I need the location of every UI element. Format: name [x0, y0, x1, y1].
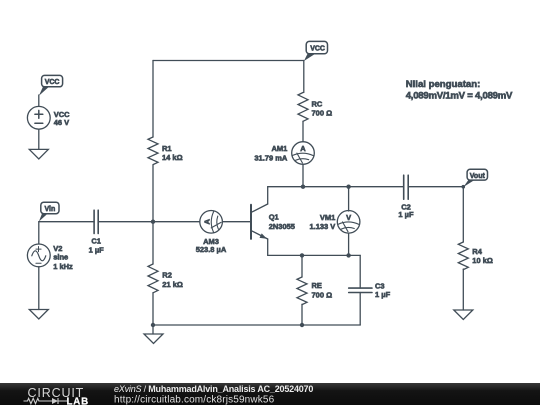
svg-text:Q1: Q1 — [269, 213, 279, 222]
junction dot ground rail left — [151, 323, 155, 327]
svg-text:LAB: LAB — [67, 396, 89, 405]
junction dot AM1/collector rail — [301, 185, 305, 189]
label RC 700 Ohm — [312, 99, 333, 117]
svg-text:1 µF: 1 µF — [375, 290, 391, 299]
CircuitLab logo — [22, 384, 102, 405]
svg-text:1 µF: 1 µF — [398, 210, 414, 219]
footer title text — [114, 384, 514, 405]
svg-text:1 µF: 1 µF — [89, 245, 105, 254]
label R1 14 kOhm — [162, 144, 183, 162]
voltage source VCC — [27, 106, 50, 129]
svg-text:R1: R1 — [162, 144, 172, 153]
junction dot VM1/collector rail — [346, 185, 350, 189]
label AM3 523.8 uA — [196, 237, 227, 254]
svg-text:VCC: VCC — [45, 79, 60, 86]
node label box VCC left — [39, 75, 63, 95]
resistor R1 — [148, 137, 158, 165]
wire R2 bottom to ground rail — [152, 293, 154, 325]
ground under R4 — [454, 310, 473, 320]
junction dot VM1 bottom — [346, 253, 350, 257]
voltmeter VM1 — [337, 211, 360, 234]
wire C3 top lead — [359, 255, 361, 288]
wire Vout corner to R4 — [462, 187, 464, 242]
footer url text — [114, 394, 514, 404]
svg-text:VM1: VM1 — [320, 213, 335, 222]
resistor R4 — [458, 242, 468, 270]
svg-text:VCC: VCC — [310, 46, 325, 53]
wire AM3 to Q1 base — [222, 221, 251, 223]
resistor R2 — [148, 264, 158, 293]
node label box VCC top — [304, 41, 328, 61]
ammeter AM3 rotated — [200, 211, 223, 234]
transistor Q1 — [251, 187, 268, 256]
wire RE top lead — [301, 255, 303, 277]
wire R2 top lead — [152, 222, 154, 264]
svg-text:700 Ω: 700 Ω — [312, 290, 333, 299]
wire C3 bottom to ground rail — [359, 293, 361, 326]
ground under VCC source — [29, 149, 48, 159]
capacitor C3 — [349, 288, 372, 292]
svg-text:sine: sine — [53, 253, 68, 262]
svg-text:Vin: Vin — [45, 206, 56, 213]
junction dot RE bottom — [300, 323, 304, 327]
label Q1 2N3055 — [269, 213, 295, 231]
junction dot base node — [151, 220, 155, 224]
svg-text:2N3055: 2N3055 — [269, 222, 295, 231]
junction dot at Vout corner — [462, 185, 466, 189]
voltage source V2 sine — [27, 244, 50, 267]
label R4 10 kOhm — [472, 247, 493, 265]
wire VM1 bottom to emitter rail — [348, 233, 350, 255]
svg-text:31.79 mA: 31.79 mA — [254, 153, 288, 162]
capacitor C1 — [94, 210, 98, 233]
svg-text:10 kΩ: 10 kΩ — [472, 256, 493, 265]
node label box Vout — [463, 169, 487, 187]
label AM1 31.79 mA — [254, 144, 288, 162]
svg-text:C1: C1 — [91, 237, 101, 246]
footer bar — [0, 383, 540, 406]
label VM1 1.133 V — [309, 213, 335, 231]
wire emitter rail — [268, 254, 361, 256]
svg-text:21 kΩ: 21 kΩ — [162, 280, 183, 289]
svg-text:V: V — [346, 213, 351, 222]
label RE 700 Ohm — [312, 281, 333, 299]
wire C1 to AM3 — [98, 221, 200, 223]
label C1 1 uF — [89, 237, 105, 255]
label VCC 46 V — [54, 110, 70, 127]
svg-text:AM1: AM1 — [271, 144, 287, 153]
wire VCC source to ground — [38, 129, 40, 149]
wire ground stem at R2 — [152, 325, 154, 334]
svg-text:14 kΩ: 14 kΩ — [162, 153, 183, 162]
wire Vin corner to C1 — [39, 221, 94, 223]
svg-text:C3: C3 — [375, 282, 385, 291]
wire collector rail left of C2 — [268, 186, 404, 188]
label V2 sine 1 kHz — [53, 244, 73, 271]
ground under V2 — [29, 310, 48, 320]
svg-text:46 V: 46 V — [54, 118, 69, 127]
svg-text:4,089mV/1mV = 4,089mV: 4,089mV/1mV = 4,089mV — [406, 91, 513, 102]
capacitor C2 — [404, 175, 409, 199]
wire VCC column to RC — [303, 61, 305, 93]
svg-text:R4: R4 — [472, 247, 482, 256]
wire AM1 bottom to collector rail — [302, 164, 304, 186]
label R2 21 kOhm — [162, 271, 183, 289]
junction dot RE top — [300, 253, 304, 257]
svg-text:AM3: AM3 — [203, 237, 219, 246]
label C3 1 uF — [375, 282, 391, 299]
label C2 1 uF — [398, 202, 414, 219]
svg-text:A: A — [202, 219, 211, 225]
wire R4 bottom to ground — [462, 269, 464, 310]
svg-text:1.133 V: 1.133 V — [309, 222, 335, 231]
node label box Vin — [39, 202, 59, 221]
note text Nilai penguatan — [406, 79, 513, 102]
wire collector rail right of C2 — [408, 186, 463, 188]
wire RE bottom to ground rail — [301, 304, 303, 325]
wire top rail — [153, 60, 304, 62]
svg-text:700 Ω: 700 Ω — [312, 109, 333, 118]
svg-text:RC: RC — [312, 99, 323, 108]
ammeter AM1 — [292, 142, 315, 165]
wire R1 bottom to base node — [152, 165, 154, 222]
svg-text:A: A — [300, 144, 306, 153]
wire Vin down to V2 — [38, 222, 40, 244]
wire VCC label tail to source — [38, 95, 40, 106]
svg-text:V2: V2 — [53, 244, 62, 253]
ground under R2 — [144, 334, 163, 344]
wire R1 top lead — [152, 61, 154, 138]
svg-text:Vout: Vout — [470, 173, 486, 180]
svg-text:1 kHz: 1 kHz — [53, 262, 73, 271]
svg-text:523.8 µA: 523.8 µA — [196, 245, 227, 254]
wire bottom ground rail — [153, 324, 360, 326]
svg-text:RE: RE — [312, 281, 322, 290]
resistor RC — [298, 93, 308, 122]
resistor RE — [297, 277, 307, 305]
wire VM1 top lead — [348, 187, 350, 211]
wire V2 to ground — [38, 267, 40, 310]
svg-text:Nilai penguatan:: Nilai penguatan: — [406, 79, 481, 90]
svg-text:R2: R2 — [162, 271, 172, 280]
wire RC bottom to AM1 — [302, 121, 304, 141]
